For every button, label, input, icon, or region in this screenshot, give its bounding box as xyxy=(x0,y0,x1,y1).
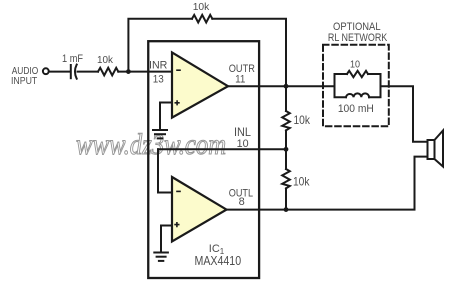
svg-text:10k: 10k xyxy=(294,114,311,127)
svg-text:13: 13 xyxy=(153,74,164,86)
svg-text:OPTIONAL: OPTIONAL xyxy=(333,21,381,33)
svg-text:10k: 10k xyxy=(193,2,211,13)
svg-text:www.dz3w.com: www.dz3w.com xyxy=(76,128,226,161)
svg-text:100 mH: 100 mH xyxy=(338,103,374,115)
svg-text:11: 11 xyxy=(235,74,245,86)
svg-text:MAX4410: MAX4410 xyxy=(194,254,241,268)
svg-text:8: 8 xyxy=(239,196,245,208)
svg-text:1 mF: 1 mF xyxy=(62,53,83,65)
svg-text:10k: 10k xyxy=(97,55,114,66)
svg-text:INR: INR xyxy=(149,59,168,71)
svg-text:RL NETWORK: RL NETWORK xyxy=(328,32,388,44)
svg-text:10: 10 xyxy=(237,138,249,150)
svg-text:10k: 10k xyxy=(293,176,310,189)
svg-text:10: 10 xyxy=(350,59,360,71)
svg-text:INPUT: INPUT xyxy=(11,75,37,87)
